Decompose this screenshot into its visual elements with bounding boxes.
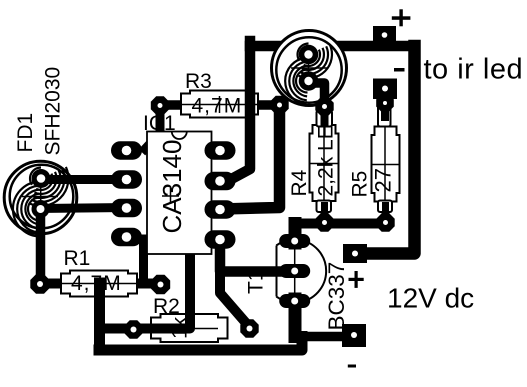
wire R5 top lead	[381, 100, 390, 127]
IC1 pin 2 pad	[111, 170, 142, 189]
can bottom pad	[299, 71, 319, 91]
R3 right pad	[270, 96, 288, 114]
R5 top lead	[378, 98, 391, 127]
wire T1 collector up to R4 R5 bottom rail	[289, 224, 302, 244]
svg-text:to ir led: to ir led	[424, 54, 524, 86]
R4 bottom lead	[317, 201, 332, 219]
resistor R4 body	[310, 125, 339, 201]
plus symbol 12V	[349, 271, 364, 288]
T1 collector pad	[279, 234, 310, 248]
T1 emitter pad	[279, 294, 310, 308]
wire can bottom pad to R4 top pad	[309, 83, 325, 107]
wire top rail down over R3 body diagonal to IC1 pin7	[224, 41, 250, 183]
12V minus terminal pad	[342, 324, 366, 347]
12V plus terminal pad	[343, 244, 367, 263]
wire minus terminal stub to R5 top pad	[379, 95, 392, 107]
wire IC1 pin4 down to R1 right pad	[139, 239, 148, 284]
wire R1 net down to ground bar (crosses R1 body)	[94, 283, 105, 350]
svg-text:27: 27	[371, 168, 396, 192]
svg-text:R4: R4	[288, 169, 311, 196]
wire R3 right pad down and left to IC1 pin6	[222, 105, 280, 209]
IC1 pin 7 pad	[205, 172, 236, 191]
R1 right pad	[151, 275, 170, 294]
resistor R1 body	[52, 271, 148, 297]
R5 top pad	[376, 94, 394, 112]
svg-text:4,7M: 4,7M	[192, 95, 243, 118]
wire ground bar bottom	[99, 337, 302, 351]
wire FD1 cathode to IC1 pin3	[41, 208, 127, 209]
svg-text:R1: R1	[64, 247, 91, 270]
IC1 pin 5 pad	[205, 230, 236, 249]
R5 bottom lead	[378, 201, 392, 219]
wire IC1 pin hidden net down over R2 body to R2 left pad and ground bar	[101, 250, 190, 329]
IC1 pin 6 pad	[205, 200, 236, 219]
wire IC1 pin5 to T1 base	[220, 245, 295, 272]
wire top supply rail to ir-led plus	[250, 41, 415, 52]
FD1 top pad	[32, 169, 51, 188]
T1 base pad	[279, 264, 310, 278]
R4 bottom pad	[315, 213, 333, 231]
minus symbol top	[394, 68, 405, 72]
wire R5 bottom lead	[382, 201, 390, 223]
IC1 pin 8 pad	[205, 141, 236, 160]
wire right rail down to 12V plus pad	[361, 46, 415, 254]
plus symbol top	[392, 9, 411, 26]
wire R1 through-lead R1 left pad to right pad	[40, 279, 160, 289]
wire T1 emitter down to ground	[289, 299, 302, 337]
wire IC1 pin5 diagonal to R2 right pad	[220, 272, 250, 328]
svg-text:CA3140: CA3140	[157, 140, 187, 234]
minus symbol 12V	[348, 365, 356, 368]
R3 left pad	[151, 96, 169, 114]
svg-text:R2: R2	[153, 295, 180, 318]
svg-text:SFH2030: SFH2030	[42, 67, 65, 156]
resistor R3 body	[170, 91, 270, 118]
wire FD1 anode to IC1 pin2	[41, 175, 126, 184]
svg-text:R3: R3	[185, 70, 212, 93]
wire R3 through-lead	[160, 100, 280, 110]
can top pad	[299, 45, 319, 65]
R4 top pad	[315, 97, 333, 115]
svg-text:T1: T1	[245, 269, 268, 294]
op-amp IC1 body	[147, 132, 212, 255]
ir led plus terminal pad	[373, 26, 396, 45]
R2 right pad	[240, 319, 258, 337]
resistor R2 body	[151, 314, 228, 342]
IC1 pin 3 pad	[111, 199, 142, 218]
R2 left pad	[124, 320, 142, 338]
svg-text:BC337: BC337	[324, 262, 349, 331]
resistor R5 body	[372, 127, 400, 202]
ir led minus terminal pad	[373, 79, 397, 100]
FD1 bottom pad	[32, 200, 50, 218]
transistor T1 outline	[276, 240, 326, 303]
capacitor can top (C1) outline	[272, 31, 347, 106]
photodiode FD1 can outline	[4, 161, 77, 236]
wire R4 bottom lead	[321, 201, 329, 223]
IC1 pin 4 pad	[111, 228, 142, 247]
R5 bottom pad	[376, 213, 394, 231]
wire R3 left pad down to IC1 pin1 (crosses IC1 label)	[145, 106, 160, 149]
R4 top lead	[317, 107, 333, 127]
svg-text:12V dc: 12V dc	[387, 283, 474, 314]
wire FD1 cathode down to R1 left pad	[36, 209, 46, 284]
svg-text:FD1: FD1	[14, 113, 37, 153]
IC1 pin 1 pad	[111, 141, 142, 160]
svg-text:R5: R5	[349, 171, 372, 198]
R1 left pad	[30, 274, 49, 293]
